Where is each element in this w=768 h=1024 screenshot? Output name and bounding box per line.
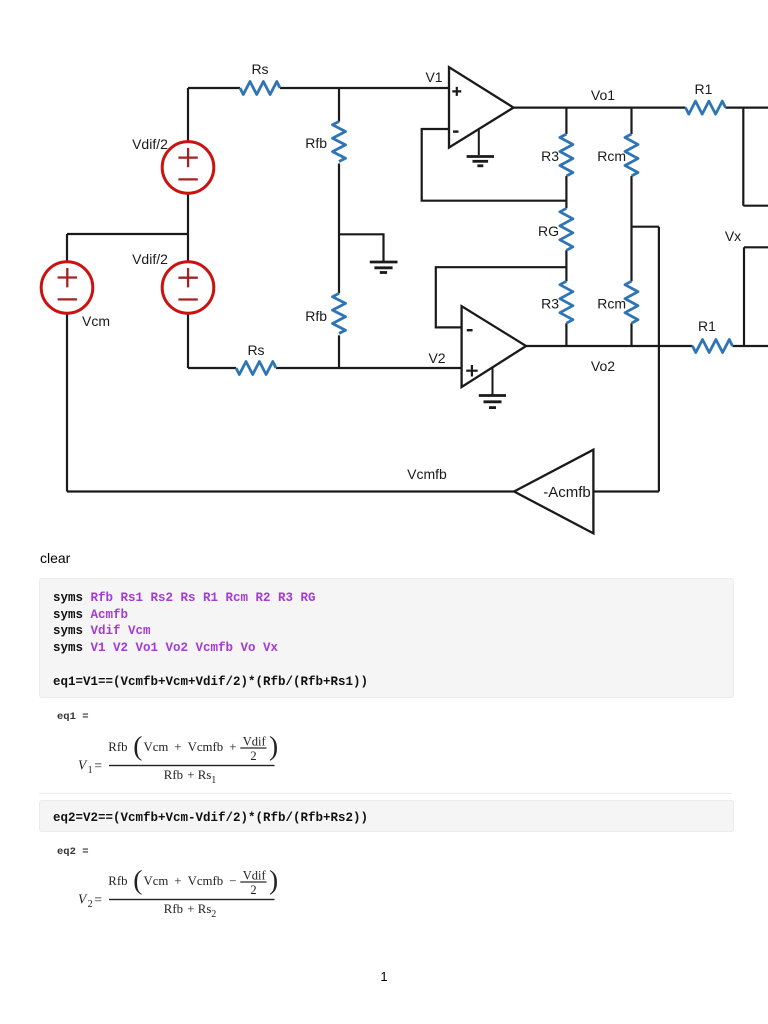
svg-text:Rs: Rs [251, 61, 268, 77]
svg-text:2: 2 [88, 899, 93, 910]
svg-text:Vcm: Vcm [144, 874, 169, 888]
source Vdif/2 (top) [162, 142, 214, 194]
op-amp U2 [462, 306, 526, 387]
svg-text:Rcm: Rcm [597, 296, 626, 312]
svg-text:+: + [174, 740, 181, 754]
svg-text:Rs: Rs [198, 902, 212, 916]
svg-text:Rs: Rs [198, 768, 212, 782]
svg-text:R1: R1 [698, 318, 716, 334]
wire: bottom input net to U2 + [188, 367, 462, 369]
wire: Rfb column [338, 88, 340, 368]
wire: net Vo1 [514, 106, 768, 108]
resistor Rfb (bottom) [333, 293, 346, 333]
svg-text:Rfb: Rfb [164, 768, 183, 782]
svg-text:Vx: Vx [725, 228, 741, 244]
svg-text:V1: V1 [425, 69, 442, 85]
formula 2 [70, 859, 310, 921]
svg-text:R1: R1 [695, 81, 713, 97]
resistor R3 (top) [560, 134, 573, 176]
source Vcm [41, 262, 93, 314]
svg-text:Vcmfb: Vcmfb [188, 874, 224, 888]
svg-text:Rfb: Rfb [108, 874, 127, 888]
svg-text:2: 2 [211, 909, 216, 920]
resistor Rcm (top) [625, 134, 638, 176]
wire: Rcm column [630, 108, 632, 346]
svg-text:): ) [269, 864, 278, 895]
resistor Rs (bottom) [236, 362, 276, 375]
wire: Vdif/2 bottom to bottom net [187, 313, 189, 368]
wire: net Vcmfb [67, 490, 514, 492]
resistor R1 (bottom) [693, 340, 733, 353]
separator rule [39, 793, 733, 794]
svg-text:(: ( [133, 864, 142, 895]
svg-text:RG: RG [538, 223, 559, 239]
resistor R1 (top) [686, 101, 726, 114]
output label eq1 [57, 711, 95, 723]
svg-text:−: − [229, 874, 236, 888]
svg-text:V: V [78, 758, 88, 773]
svg-text:Vo1: Vo1 [591, 87, 615, 103]
wire: ground tap from Rfb midpoint [339, 234, 384, 261]
svg-text:1: 1 [88, 765, 93, 776]
svg-text:2: 2 [250, 883, 256, 897]
wire: U2 feedback loop [436, 267, 567, 327]
svg-text:Vo2: Vo2 [591, 358, 615, 374]
ground (U2) [479, 368, 506, 408]
page number [0, 969, 768, 984]
resistor Rs (top) [240, 82, 280, 95]
ground (U1) [467, 129, 494, 166]
svg-text:+: + [187, 902, 194, 916]
ground (Rfb midpoint) [370, 262, 398, 273]
wire: U1 feedback loop [422, 129, 567, 201]
resistor Rcm (bottom) [625, 281, 638, 323]
svg-text:Vcmfb: Vcmfb [188, 740, 224, 754]
formula 1 [70, 725, 310, 787]
svg-text:R3: R3 [541, 296, 559, 312]
svg-text:Vcm: Vcm [144, 740, 169, 754]
svg-text:Rfb: Rfb [305, 135, 327, 151]
svg-text:V: V [78, 892, 88, 907]
svg-text:=: = [94, 892, 102, 907]
svg-text:Rfb: Rfb [305, 308, 327, 324]
svg-text:Vdif: Vdif [243, 735, 267, 749]
svg-text:Vdif/2: Vdif/2 [132, 136, 168, 152]
source Vdif/2 (bottom) [162, 262, 214, 314]
svg-text:-Acmfb: -Acmfb [543, 484, 591, 501]
svg-text:): ) [269, 730, 278, 761]
svg-text:Vdif/2: Vdif/2 [132, 251, 168, 267]
svg-text:(: ( [133, 730, 142, 761]
svg-text:Rs: Rs [247, 342, 264, 358]
svg-text:+: + [229, 740, 236, 754]
wire: net Vo2 [526, 345, 768, 347]
text: clear [40, 550, 70, 566]
wire: R3/RG column [565, 108, 567, 346]
svg-text:=: = [94, 758, 102, 773]
wire: Vcm bottom down the left side [66, 314, 68, 492]
op-amp U1 [449, 67, 514, 147]
resistor RG [560, 208, 573, 250]
output label eq2 [57, 846, 95, 858]
svg-text:Vdif: Vdif [243, 869, 267, 883]
svg-text:Rcm: Rcm [597, 148, 626, 164]
svg-text:Vcm: Vcm [82, 313, 110, 329]
svg-text:Vcmfb: Vcmfb [407, 466, 447, 482]
wire: Vdif/2 top to mid node [67, 193, 188, 262]
code block 2 [39, 800, 735, 832]
code block 1 [39, 578, 735, 698]
svg-text:+: + [174, 874, 181, 888]
svg-text:+: + [187, 768, 194, 782]
svg-text:Rfb: Rfb [108, 740, 127, 754]
svg-text:2: 2 [250, 749, 256, 763]
resistor R3 (bottom) [560, 281, 573, 323]
svg-text:1: 1 [211, 775, 216, 786]
svg-text:R3: R3 [541, 148, 559, 164]
resistor Rfb (top) [333, 122, 346, 162]
wire: node Vx stub [744, 247, 768, 346]
amplifier Acmfb [514, 450, 593, 534]
wire: top input net to U1 + [188, 88, 449, 141]
wire: CM sense node to Acmfb input [593, 227, 659, 492]
svg-text:Rfb: Rfb [164, 902, 183, 916]
svg-text:V2: V2 [428, 350, 445, 366]
wire: right stub from Vo1/R1 node [743, 108, 768, 206]
